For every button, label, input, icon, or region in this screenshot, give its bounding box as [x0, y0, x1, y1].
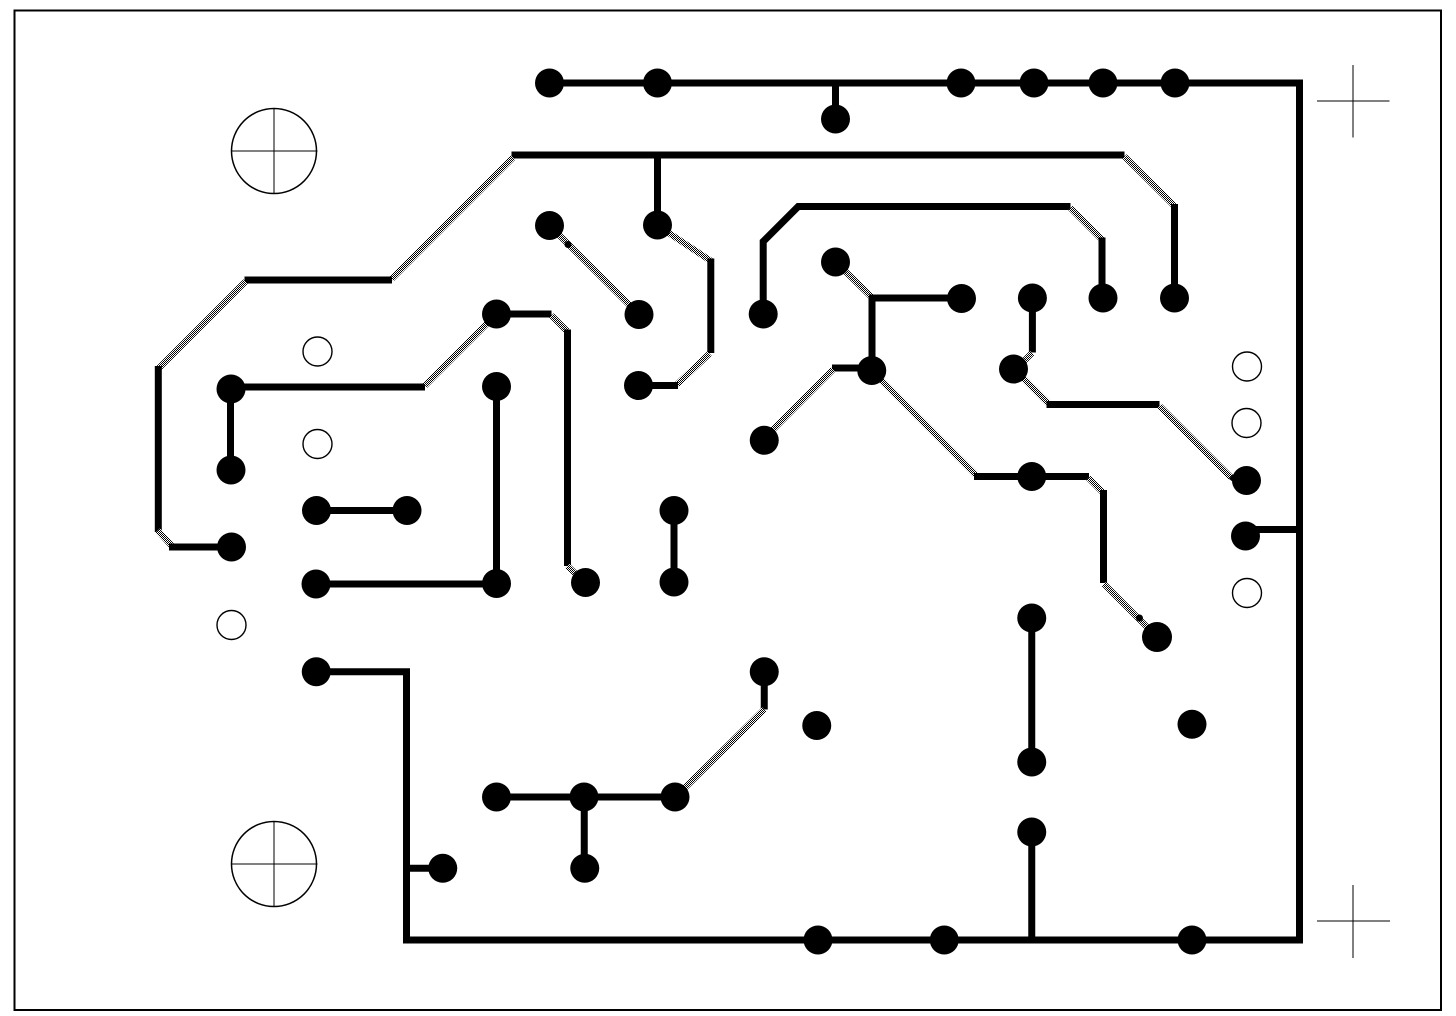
pad P40	[1017, 604, 1046, 633]
trace: junction horizontal to pad	[869, 295, 962, 302]
pad P41	[1017, 748, 1046, 777]
trace: vertical pad to pad	[581, 797, 588, 868]
trace diagonal (dithered): line3 right end down	[1071, 208, 1103, 240]
trace: pad to pad horizontal	[316, 581, 497, 588]
trace corner jog to pad row	[158, 531, 172, 547]
trace: short horizontal to pad	[169, 544, 232, 551]
trace diagonal (dithered): pad down-right	[1024, 379, 1049, 404]
pad P8	[535, 211, 564, 240]
pad P24	[393, 496, 422, 525]
trace diagonal (dithered): jog to pad	[568, 566, 585, 582]
registration cross top-right	[1317, 65, 1390, 138]
pad P9	[643, 211, 672, 240]
trace: vertical pad to pad	[671, 511, 678, 583]
pad P32	[1017, 462, 1046, 491]
wire stub: line2 to pad	[654, 155, 661, 225]
trace diagonal (dithered): pad to T junction	[845, 271, 872, 297]
drill hole H5	[1232, 409, 1261, 438]
trace arrow stub into pad	[1231, 477, 1241, 486]
trace diagonal (dithered): up-right to pad	[425, 321, 490, 386]
pad P14	[1160, 284, 1189, 313]
pad P34	[1231, 522, 1260, 551]
wire stub: top rail to pad below	[832, 83, 839, 119]
pad P47	[570, 854, 599, 883]
pad P20	[217, 375, 246, 404]
pad P17	[857, 356, 886, 385]
trace diagonal (dithered): long run to pad	[1160, 406, 1232, 478]
trace: left vertical	[155, 366, 162, 532]
drill hole H2	[303, 430, 332, 459]
pad P43	[482, 783, 511, 812]
trace: vertical pad to pad	[227, 389, 234, 470]
pad P13	[1089, 284, 1118, 313]
drill hole H1	[303, 337, 332, 366]
pad P5	[1089, 69, 1118, 98]
trace diagonal (dithered): shelf down-left	[159, 282, 246, 369]
trace: horizontal from pad	[231, 384, 425, 391]
pad P50	[1178, 926, 1207, 955]
pad P7	[821, 105, 850, 134]
pad P39	[1178, 710, 1207, 739]
trace: pad to right rail	[1246, 526, 1300, 533]
trace: junction vertical to pad	[869, 297, 876, 371]
via dot on diagonal	[565, 241, 572, 248]
pad P6	[1161, 69, 1190, 98]
trace: pad to pad horizontal	[316, 507, 407, 514]
trace: vertical	[1100, 490, 1107, 583]
trace: horizontal	[1047, 401, 1160, 408]
pad P44	[570, 783, 599, 812]
trace: shelf horizontal	[245, 277, 393, 284]
trace: main rail (top, right, bottom, left-up to pad)	[316, 83, 1299, 940]
pad P29	[660, 496, 689, 525]
pad P2	[643, 69, 672, 98]
trace diagonal (dithered): pad 9 shallow run to vertical	[658, 226, 712, 262]
trace: stub below pad	[761, 672, 768, 710]
trace: long vertical	[564, 330, 571, 567]
trace diagonal (dithered): down-right to large pad	[1104, 584, 1150, 630]
mounting hole M1 (top-left, circle with crosshair)	[231, 108, 318, 194]
trace: vertical to pad	[1099, 238, 1106, 299]
pad P4	[1020, 69, 1049, 98]
trace: second horizontal line	[512, 152, 1125, 159]
pad P35	[1142, 622, 1172, 652]
wire stub: left rail to pad	[407, 865, 443, 872]
trace: vertical below pad	[1029, 298, 1036, 353]
pad P51	[624, 371, 653, 400]
registration cross bottom-right	[1317, 885, 1390, 958]
drill hole H4	[1233, 352, 1262, 381]
trace diagonal (dithered): jog down	[552, 316, 568, 332]
trace diagonal (dithered): line2 right end down	[1125, 157, 1175, 206]
trace diagonal (dithered): junction pad down-right	[873, 372, 976, 475]
pad P37	[750, 657, 779, 686]
trace: vertical pad to pad	[1028, 618, 1035, 762]
pad P18	[1018, 284, 1047, 313]
pad P28	[571, 568, 600, 597]
trace: third horizontal line with chamfered left bend down to pad	[763, 207, 1070, 315]
pad P1	[535, 69, 564, 98]
pad P36	[302, 657, 331, 686]
mounting hole M2 (bottom-left, circle with crosshair)	[231, 821, 318, 907]
pad P45	[661, 783, 690, 812]
pad P27	[482, 569, 511, 598]
pad P42	[1017, 818, 1046, 847]
trace diagonal (dithered): down-left to pad	[675, 710, 765, 799]
pad P26	[302, 570, 331, 599]
trace diagonal (dithered): vertical down-left	[677, 354, 710, 385]
pad P15	[821, 248, 850, 277]
trace diagonal (dithered): line2 left end up from shelf	[392, 158, 514, 280]
drill hole H3	[217, 611, 246, 640]
pad P19	[999, 355, 1028, 384]
wire stub: pad to bottom rail	[1028, 832, 1035, 940]
trace: vertical right of pad 10	[707, 259, 714, 354]
pad P21	[482, 372, 511, 401]
trace: pad stub right	[497, 311, 552, 318]
trace diagonal (dithered): jog down-right	[1089, 478, 1103, 492]
pad P10	[625, 300, 654, 329]
pad P38	[802, 711, 831, 740]
pad P30	[660, 568, 689, 597]
pad P11	[482, 300, 511, 329]
pad P3	[947, 69, 976, 98]
trace: horizontal pad row	[497, 794, 675, 801]
trace diagonal (dithered): jog to pad	[1014, 353, 1032, 371]
pad P22	[217, 456, 246, 485]
pad P25	[217, 533, 246, 562]
trace: vertical to pad	[1171, 204, 1178, 298]
trace: vertical pad to pad	[493, 387, 500, 584]
pad P12	[749, 300, 778, 329]
pad P23	[302, 496, 331, 525]
via dot on diagonal	[1136, 615, 1143, 622]
trace: horizontal through pad	[974, 473, 1089, 480]
trace diagonal (dithered): pad to pad	[550, 226, 640, 315]
trace stub left of junction pad	[832, 365, 862, 372]
pad P48	[804, 926, 833, 955]
pad P46	[428, 854, 457, 883]
pad P31	[750, 426, 779, 455]
pad P49	[930, 926, 959, 955]
drill hole H6	[1233, 579, 1262, 608]
trace diagonal (dithered): stub down-left to pad	[765, 370, 833, 438]
trace: stub into pad	[639, 382, 679, 389]
pad P33	[1232, 466, 1261, 495]
pad P16	[947, 284, 976, 313]
